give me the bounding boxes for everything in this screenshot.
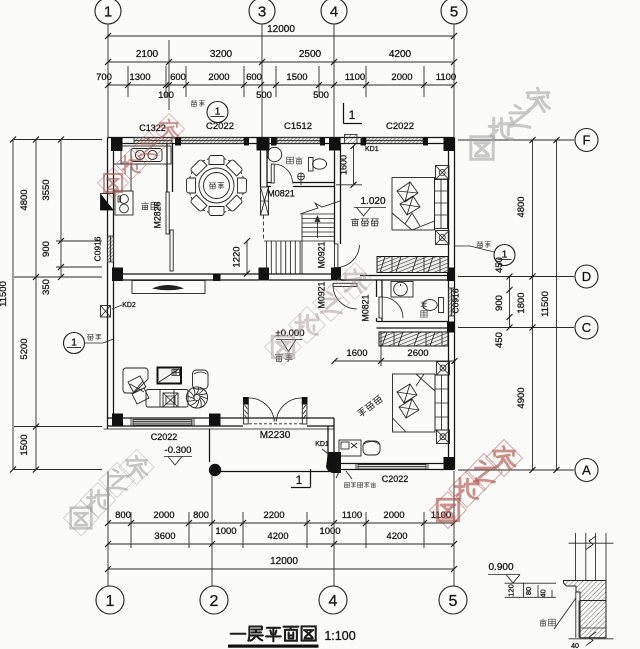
exterior bottom wall master bedroom <box>328 464 455 470</box>
window C1322 top wall <box>134 138 172 144</box>
label 主卫 vertical <box>421 302 427 308</box>
svg-text:M0821: M0821 <box>361 294 371 321</box>
bedroom2 dresser strip <box>435 179 448 229</box>
svg-text:4800: 4800 <box>19 189 30 210</box>
porch round column <box>209 464 221 476</box>
bottom dim row fine <box>108 522 454 524</box>
coffee table dark <box>158 368 182 384</box>
kitchen counter left band <box>114 164 132 191</box>
svg-text:1000: 1000 <box>319 526 340 537</box>
svg-text:M0921: M0921 <box>317 281 327 308</box>
svg-text:40: 40 <box>571 643 579 649</box>
bedroom2 bed <box>392 178 435 231</box>
KD2 label and wall box <box>101 306 111 318</box>
watermark grey bottom-left <box>60 446 158 539</box>
window C0916 right wall bath <box>449 288 455 316</box>
bottom dim row 3600 4200 4200 <box>108 543 454 545</box>
window C0916 left wall kitchen <box>108 236 114 262</box>
stair break line <box>300 201 340 214</box>
detail wall above sill <box>569 533 614 580</box>
svg-text:C2022: C2022 <box>151 432 178 442</box>
svg-text:2000: 2000 <box>153 510 174 521</box>
bedroom2 quilt fold <box>392 213 435 230</box>
kitchen top counter with sink <box>121 146 171 164</box>
svg-text:600: 600 <box>170 72 186 83</box>
svg-text:D: D <box>582 269 591 284</box>
bottom dim row 12000 <box>108 568 454 570</box>
window C2022 top wall dining <box>178 138 244 144</box>
svg-text:2500: 2500 <box>299 49 322 60</box>
master bed pillows <box>397 384 419 418</box>
svg-text:120: 120 <box>507 584 516 597</box>
exterior left wall <box>108 138 114 430</box>
label cast roman column <box>344 482 375 487</box>
bottom axis extension lines <box>107 471 109 586</box>
svg-text:1300: 1300 <box>129 72 150 83</box>
master bed quilt fold <box>393 374 436 432</box>
svg-text:1: 1 <box>215 106 221 118</box>
stairs lower flight treads <box>264 241 334 274</box>
svg-text:C2022: C2022 <box>382 474 409 484</box>
top axis extension lines <box>107 24 109 137</box>
L corner column porch <box>326 452 341 473</box>
window C2022 master bedroom bottom <box>358 465 426 470</box>
svg-text:350: 350 <box>41 279 52 295</box>
door M2230 double entrance <box>244 398 249 425</box>
left dim row 11500 <box>12 140 14 470</box>
sofa diagonal cushions <box>128 376 146 393</box>
interior wall kitchen/dining <box>167 144 173 193</box>
detail dims 120 80 40 <box>505 583 557 597</box>
svg-text:C: C <box>582 320 591 335</box>
section flag 1 bottom <box>291 469 311 488</box>
svg-text:4200: 4200 <box>389 49 412 60</box>
dim 1600 2600 interior <box>335 360 455 362</box>
svg-text:3600: 3600 <box>154 531 175 542</box>
public bath floor drain <box>298 173 305 180</box>
label 厨房 <box>141 202 158 209</box>
master bath left wall <box>377 280 383 322</box>
public bath bottom wall <box>267 183 334 187</box>
watermark red bottom-right <box>427 436 527 532</box>
dim 1220 stairs <box>246 241 248 274</box>
porch corner wall segment <box>328 418 334 470</box>
armchair <box>193 370 209 389</box>
svg-text:4800: 4800 <box>516 196 527 217</box>
svg-text:80: 80 <box>524 587 533 595</box>
TV wall columns done; tv wall line <box>114 274 221 280</box>
svg-text:4: 4 <box>329 593 338 610</box>
svg-text:1: 1 <box>349 108 356 122</box>
wall bedroom2 left <box>335 144 341 269</box>
label 滴水 drip <box>540 619 556 626</box>
svg-text:500: 500 <box>313 90 329 101</box>
TV cabinet <box>132 281 205 294</box>
master dresser strip <box>435 375 448 430</box>
detail wall below <box>580 601 606 638</box>
right dim row 11500 <box>556 140 558 470</box>
sliding door M2826 <box>166 192 169 234</box>
living room bottom wall <box>108 418 335 426</box>
dining chairs x8 <box>207 156 226 165</box>
svg-text:900: 900 <box>41 241 52 257</box>
top dim row 2100 3200 2500 4200 <box>108 61 454 63</box>
svg-text:1: 1 <box>71 337 77 349</box>
svg-text:C2022: C2022 <box>386 121 414 132</box>
svg-text:3: 3 <box>258 3 266 20</box>
hall bottom wall <box>221 274 449 280</box>
svg-text:800: 800 <box>193 510 209 521</box>
top dim row 12000 <box>108 35 454 37</box>
svg-text:800: 800 <box>115 510 131 521</box>
svg-text:1: 1 <box>104 3 112 20</box>
door M0921 bedroom2 <box>335 244 338 268</box>
svg-text:1: 1 <box>296 473 303 487</box>
watermark grey center <box>262 259 378 369</box>
svg-text:1600: 1600 <box>346 348 367 359</box>
public bath washbasin <box>267 147 281 161</box>
left dim row 4800 5200 1500 <box>35 140 37 470</box>
master bed <box>393 374 436 432</box>
door M0821 public bath <box>271 164 274 183</box>
svg-text:A: A <box>582 463 591 478</box>
sofa corner unit <box>123 368 148 393</box>
label 公卫 <box>287 157 303 164</box>
svg-text:4200: 4200 <box>267 531 288 542</box>
stair up arrow <box>317 219 319 238</box>
porch slab lines <box>104 428 335 430</box>
master nightstands <box>437 362 450 376</box>
svg-text:11500: 11500 <box>0 281 9 307</box>
svg-text:450: 450 <box>494 332 505 348</box>
svg-text:2100: 2100 <box>136 49 159 60</box>
svg-text:M0821: M0821 <box>267 189 295 199</box>
svg-text:4200: 4200 <box>386 531 407 542</box>
door M0821 master bath <box>379 297 382 318</box>
svg-text:C2022: C2022 <box>206 121 234 132</box>
top extension ticks <box>127 66 129 97</box>
svg-text:2000: 2000 <box>208 72 229 83</box>
title 一层平面图 1:100 <box>231 626 316 641</box>
duct shaft hatched <box>261 187 269 215</box>
svg-text:C0916: C0916 <box>451 288 461 313</box>
svg-text:5: 5 <box>450 3 458 20</box>
right extension lines to axis circles F D C A <box>458 139 574 141</box>
window C2022 top wall bedroom2 <box>366 138 423 144</box>
svg-text:1800: 1800 <box>516 292 527 313</box>
svg-text:500: 500 <box>256 90 272 101</box>
exterior right wall <box>449 138 455 470</box>
door M0921 hall/corridor <box>333 283 357 286</box>
label 餐厅 table <box>209 183 224 189</box>
window C1512 top wall bath <box>277 138 320 144</box>
master bath washbasin <box>391 282 413 298</box>
svg-text:1000: 1000 <box>215 526 236 537</box>
left dim sub row 3550 900 350 <box>60 140 62 278</box>
belt line detail mark top <box>207 102 228 123</box>
svg-text:1100: 1100 <box>342 510 362 521</box>
svg-text:2000: 2000 <box>391 72 412 83</box>
svg-text:1220: 1220 <box>232 246 243 267</box>
svg-text:12000: 12000 <box>270 556 298 567</box>
right dim sub row 450 900 450 <box>509 277 511 328</box>
KD1 top with dim 1600 <box>345 135 358 144</box>
master desk and chair <box>339 440 361 456</box>
bedroom2 wardrobe hatched <box>377 257 448 273</box>
svg-text:1: 1 <box>502 249 508 261</box>
master bath bottom wall <box>377 322 449 329</box>
svg-text:M2230: M2230 <box>260 430 291 441</box>
bedroom2 nightstands <box>436 166 450 180</box>
svg-text:3550: 3550 <box>41 179 52 200</box>
svg-text:5200: 5200 <box>19 338 30 359</box>
svg-text:M2826: M2826 <box>153 201 163 228</box>
svg-text:700: 700 <box>96 72 112 83</box>
label 次卧室 <box>351 218 378 226</box>
stairs upper flight treads <box>302 214 334 274</box>
svg-text:1:100: 1:100 <box>324 629 355 643</box>
svg-text:12000: 12000 <box>267 24 295 35</box>
svg-text:KD1: KD1 <box>315 441 329 448</box>
label 客厅 <box>275 354 292 362</box>
interior wall dining/bath <box>261 144 268 188</box>
svg-text:1100: 1100 <box>436 72 456 83</box>
top axis circles 1 3 4 5 <box>95 0 121 24</box>
right dim row 4800 1800 4900 <box>532 140 534 470</box>
svg-text:2200: 2200 <box>263 510 284 521</box>
svg-text:0.900: 0.900 <box>488 562 513 573</box>
svg-text:11500: 11500 <box>540 291 551 317</box>
svg-text:600: 600 <box>246 72 262 83</box>
master wardrobe hatched <box>379 332 448 346</box>
svg-text:-0.300: -0.300 <box>165 445 192 456</box>
svg-text:F: F <box>583 133 591 148</box>
svg-text:900: 900 <box>494 295 505 311</box>
svg-text:2: 2 <box>210 593 219 610</box>
exterior top wall <box>108 138 455 144</box>
watermark grey top-right <box>460 77 562 171</box>
detail sill hatched <box>564 581 607 601</box>
right axis circles F D C A <box>575 129 598 152</box>
bottom axis circles 1 2 4 5 <box>96 586 124 614</box>
svg-text:2000: 2000 <box>383 510 404 521</box>
sofa seats row <box>146 390 188 408</box>
svg-text:4900: 4900 <box>516 387 527 408</box>
kitchen stove <box>115 191 133 215</box>
svg-text:1: 1 <box>106 593 115 610</box>
bedroom2 pillows <box>397 182 420 215</box>
svg-text:40: 40 <box>539 589 548 597</box>
belt line detail mark left <box>64 333 85 354</box>
public bath toilet <box>309 158 314 172</box>
svg-text:M0921: M0921 <box>317 241 327 268</box>
section flag 1 top <box>344 103 363 124</box>
dining round table <box>199 168 234 203</box>
svg-text:KD1: KD1 <box>365 146 379 153</box>
svg-text:3200: 3200 <box>210 49 233 60</box>
svg-text:1100: 1100 <box>345 72 365 83</box>
svg-text:4: 4 <box>330 3 338 20</box>
svg-text:C0916: C0916 <box>93 236 103 261</box>
svg-text:1600: 1600 <box>339 155 349 175</box>
svg-text:KD2: KD2 <box>122 302 136 309</box>
window C2022 living room bottom <box>133 420 192 426</box>
label 主卧室 rotated <box>357 395 383 418</box>
watermark red top-left <box>95 110 188 201</box>
svg-text:1.020: 1.020 <box>360 196 385 207</box>
svg-text:C1512: C1512 <box>284 121 312 132</box>
top dim row fine <box>108 84 454 86</box>
left extension lines <box>14 139 102 141</box>
svg-text:1500: 1500 <box>286 72 307 83</box>
svg-text:5: 5 <box>449 593 458 610</box>
wicker chair swirl <box>186 387 207 408</box>
master bath toilet <box>439 298 444 313</box>
svg-text:1500: 1500 <box>19 434 30 455</box>
svg-text:2600: 2600 <box>407 348 428 359</box>
belt line detail mark right <box>494 245 515 266</box>
black columns <box>111 138 123 151</box>
kitchen flue on left wall <box>101 194 114 211</box>
flue dashed line <box>263 215 265 241</box>
